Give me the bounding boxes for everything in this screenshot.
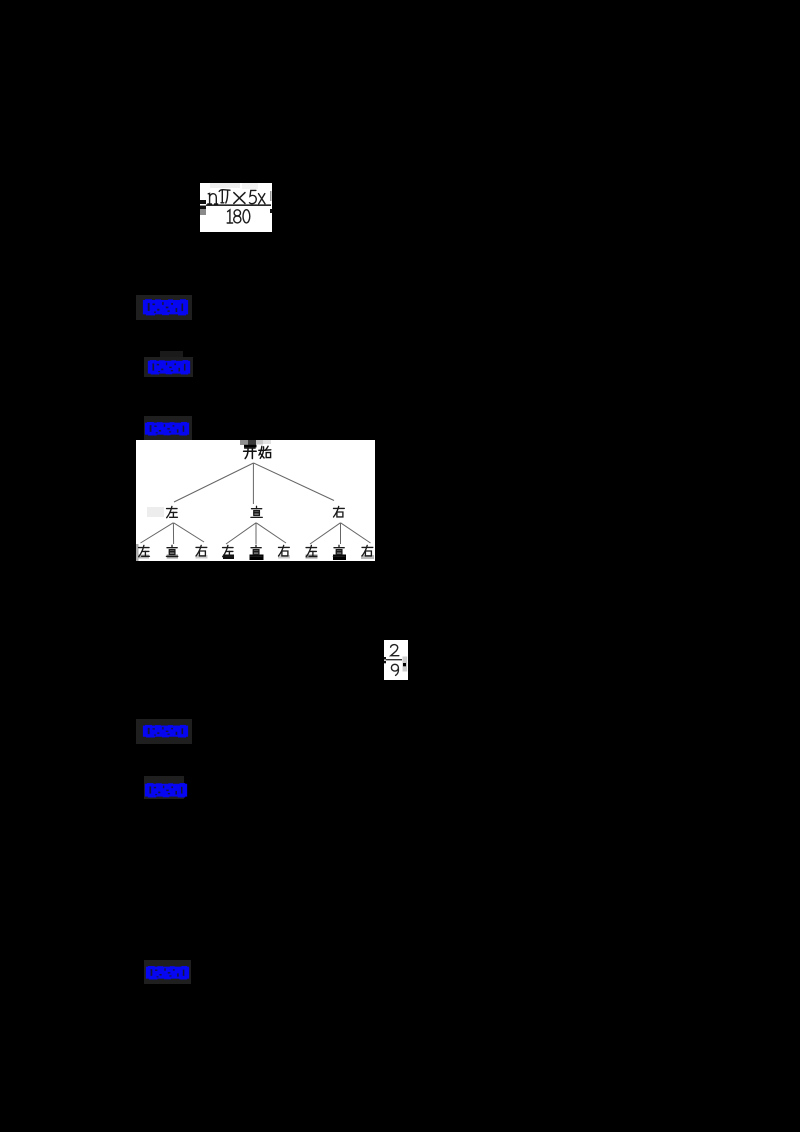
0 <box>243 210 250 223</box>
blue label 6 <box>144 960 191 984</box>
blue label 1 <box>136 295 192 320</box>
pi <box>219 190 230 192</box>
blue label 5 <box>144 776 184 799</box>
8 <box>234 210 240 216</box>
5 <box>250 190 257 203</box>
1 <box>228 210 230 223</box>
tree diagram box <box>136 440 375 561</box>
times <box>234 193 245 204</box>
n <box>208 193 209 204</box>
blue label 4 <box>136 719 192 744</box>
x <box>259 194 266 204</box>
formula box 2: 2/9 <box>384 640 408 680</box>
formula box 1: (n pi x 5x)/180 <box>200 183 272 232</box>
blue label 2 <box>160 351 183 359</box>
2 <box>391 645 399 656</box>
blue label 3 <box>144 416 192 440</box>
9 <box>396 669 399 676</box>
